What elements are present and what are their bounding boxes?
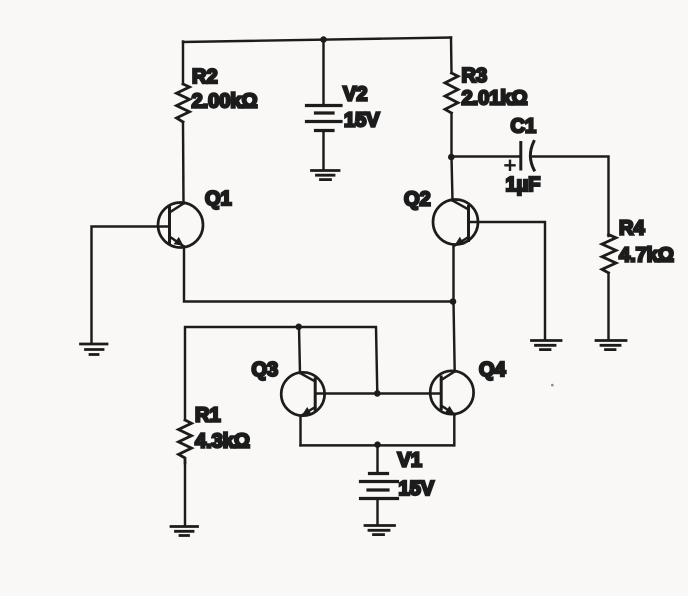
battery V2 bbox=[307, 106, 342, 131]
svg-text:Q2: Q2 bbox=[404, 189, 431, 211]
svg-text:V1: V1 bbox=[398, 450, 422, 472]
wire R4 bottom lead bbox=[607, 273, 609, 340]
transistor Q1 bbox=[158, 203, 203, 248]
svg-text:1µF: 1µF bbox=[506, 174, 541, 196]
wire V2 to ground bbox=[322, 131, 324, 171]
transistor Q4 bbox=[430, 371, 473, 415]
svg-text:15V: 15V bbox=[344, 110, 380, 132]
wire Q4 collector bbox=[454, 302, 455, 372]
wire R1 node rail bbox=[185, 327, 377, 420]
svg-text:R4: R4 bbox=[619, 218, 645, 240]
stray scan speck bbox=[551, 384, 554, 387]
wire C1 right lead bbox=[533, 157, 609, 237]
wire Q1 emitter rail bbox=[184, 247, 453, 302]
svg-text:Q1: Q1 bbox=[205, 188, 232, 210]
wire Q4 emitter bbox=[453, 415, 455, 446]
svg-text:C1: C1 bbox=[511, 116, 537, 138]
wire V2 top lead bbox=[322, 40, 324, 105]
svg-text:15V: 15V bbox=[399, 478, 435, 500]
wire R3 to C1 node bbox=[450, 113, 452, 157]
svg-text:R3: R3 bbox=[462, 65, 488, 87]
wire Q2 base bbox=[469, 222, 546, 340]
svg-text:R2: R2 bbox=[192, 66, 218, 88]
ground V2 bbox=[312, 171, 340, 180]
svg-text:2.01kΩ: 2.01kΩ bbox=[462, 88, 528, 110]
svg-text:R1: R1 bbox=[195, 405, 221, 427]
node emitter rail junction bbox=[450, 298, 457, 305]
resistor R1 bbox=[179, 420, 192, 463]
svg-text:4.7kΩ: 4.7kΩ bbox=[619, 245, 674, 267]
ground Q1 base bbox=[81, 344, 108, 355]
wire Q3 collector bbox=[299, 327, 300, 373]
ground V1 bbox=[365, 526, 395, 535]
svg-text:V2: V2 bbox=[343, 84, 367, 106]
svg-text:4.3kΩ: 4.3kΩ bbox=[195, 431, 250, 453]
wire Q1 base bbox=[92, 227, 170, 344]
transistor Q2 bbox=[433, 200, 478, 247]
capacitor C1 bbox=[506, 142, 535, 171]
wire Q2 collector bbox=[452, 157, 453, 201]
node V2 top junction bbox=[320, 36, 327, 43]
resistor R3 bbox=[445, 73, 458, 113]
wire emitter bottom rail bbox=[301, 444, 454, 446]
battery V1 bbox=[361, 474, 398, 499]
svg-text:2.00kΩ: 2.00kΩ bbox=[192, 91, 258, 113]
wire Q2 emitter bbox=[452, 246, 454, 302]
wire V1 to ground bbox=[376, 499, 378, 526]
ground R4 bbox=[596, 341, 626, 350]
node Q3 collector junction bbox=[295, 324, 302, 331]
wire C1 left lead bbox=[452, 155, 520, 157]
wire R3 top lead bbox=[450, 38, 453, 74]
wire R1 bottom lead bbox=[184, 463, 186, 526]
wire V1 top lead bbox=[376, 445, 378, 473]
ground R1 bbox=[171, 527, 198, 536]
wire R2 top lead bbox=[182, 42, 184, 85]
wire Q3 emitter bbox=[299, 416, 301, 446]
transistor Q3 bbox=[281, 372, 324, 416]
svg-text:Q4: Q4 bbox=[479, 359, 507, 381]
wire top supply rail bbox=[183, 38, 451, 43]
wire R2 to Q1 collector bbox=[182, 122, 185, 204]
resistor R4 bbox=[602, 235, 616, 273]
svg-text:Q3: Q3 bbox=[252, 359, 279, 381]
wire base rail Q3 to Q4 bbox=[315, 392, 441, 394]
node V1 junction bbox=[374, 441, 381, 448]
ground Q2 base bbox=[532, 341, 562, 350]
node C1 junction bbox=[448, 154, 455, 161]
node Q3 Q4 base junction bbox=[374, 390, 381, 397]
resistor R2 bbox=[177, 84, 190, 122]
